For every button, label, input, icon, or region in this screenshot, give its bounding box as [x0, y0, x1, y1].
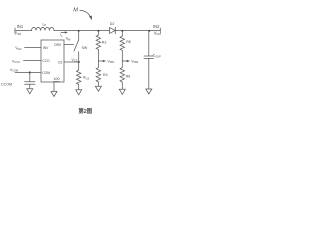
ground CCOM: [27, 89, 33, 94]
svg-text:VINV: VINV: [15, 46, 22, 51]
svg-text:M: M: [73, 7, 78, 13]
svg-text:RCS: RCS: [83, 76, 89, 81]
resistor R6: [120, 61, 124, 89]
svg-text:IN2: IN2: [153, 24, 160, 29]
ground COUP: [146, 89, 152, 94]
ground RCS: [76, 90, 82, 95]
svg-text:VCS: VCS: [72, 58, 78, 63]
svg-text:COM: COM: [42, 71, 50, 75]
junction left divider tap: [97, 30, 99, 32]
callout arrow M: [80, 10, 91, 17]
wire switch node to left divider tap: [79, 30, 99, 32]
svg-text:VFB1: VFB1: [108, 59, 115, 64]
svg-text:SW: SW: [82, 46, 88, 50]
ground right divider: [119, 89, 125, 94]
capacitor COUP: [148, 31, 150, 57]
wire diode cathode to right divider tap: [115, 30, 122, 32]
svg-text:VFB2: VFB2: [131, 59, 138, 64]
junction CS node: [78, 61, 80, 63]
junction COUP node: [148, 30, 150, 32]
junction CCOM node: [29, 71, 31, 73]
wire COUP node to IN2: [149, 30, 160, 32]
switch SW blade: [74, 40, 79, 51]
ground left divider: [95, 86, 101, 91]
resistor RCS: [77, 62, 81, 90]
resistor R4: [96, 61, 100, 86]
svg-text:R3: R3: [102, 40, 107, 44]
current arrow IL: [61, 31, 65, 33]
capacitor CCOM: [29, 73, 31, 82]
svg-text:VIN2: VIN2: [154, 30, 162, 36]
wire IN1 to inductor: [15, 30, 32, 32]
pin DRV stub: [64, 44, 74, 46]
diode D2: [110, 28, 116, 34]
wire right divider tap to COUP node: [122, 30, 149, 32]
pin INV stub: [25, 47, 42, 49]
svg-text:R6: R6: [126, 74, 131, 78]
pin COM stub: [15, 72, 41, 74]
svg-text:COUP: COUP: [153, 54, 162, 59]
svg-text:CCOM: CCOM: [1, 83, 12, 87]
node VFB2 arrow: [122, 60, 126, 62]
svg-text:VCOM: VCOM: [10, 68, 18, 73]
inductor LP: [32, 27, 55, 30]
svg-text:DRV: DRV: [54, 43, 62, 47]
svg-text:R5: R5: [126, 40, 131, 44]
resistor R5: [120, 31, 124, 62]
wire left divider tap to diode anode: [98, 30, 109, 32]
controller U 100 box: [41, 40, 64, 82]
svg-text:VCCO: VCCO: [12, 59, 20, 64]
wire inductor to switch node: [54, 30, 79, 32]
resistor R3: [96, 31, 100, 62]
svg-text:INV: INV: [43, 46, 49, 50]
svg-text:CS: CS: [58, 61, 63, 65]
svg-text:VIN1: VIN1: [14, 30, 22, 36]
svg-text:第2图: 第2图: [78, 107, 92, 115]
svg-text:D2: D2: [110, 22, 115, 26]
pin GND stub below box: [53, 82, 55, 92]
node VFB1 arrow: [98, 60, 102, 62]
node IN2 terminal tick: [159, 28, 161, 33]
svg-text:CCO: CCO: [42, 59, 50, 63]
svg-text:IL: IL: [60, 33, 63, 38]
svg-text:R4: R4: [103, 73, 108, 77]
wire switch node down to switch: [78, 31, 80, 40]
svg-text:100: 100: [54, 77, 60, 81]
svg-text:SW: SW: [66, 37, 71, 42]
junction switch node: [78, 30, 80, 32]
pin CCO stub: [24, 60, 42, 62]
pin CS stub: [64, 61, 79, 63]
svg-text:IN1: IN1: [17, 24, 24, 29]
node IN1 terminal tick: [14, 28, 16, 33]
ground controller: [51, 92, 57, 97]
svg-text:LP: LP: [43, 22, 47, 27]
wire switch bottom to CS node: [78, 52, 80, 62]
junction right divider tap: [121, 30, 123, 32]
